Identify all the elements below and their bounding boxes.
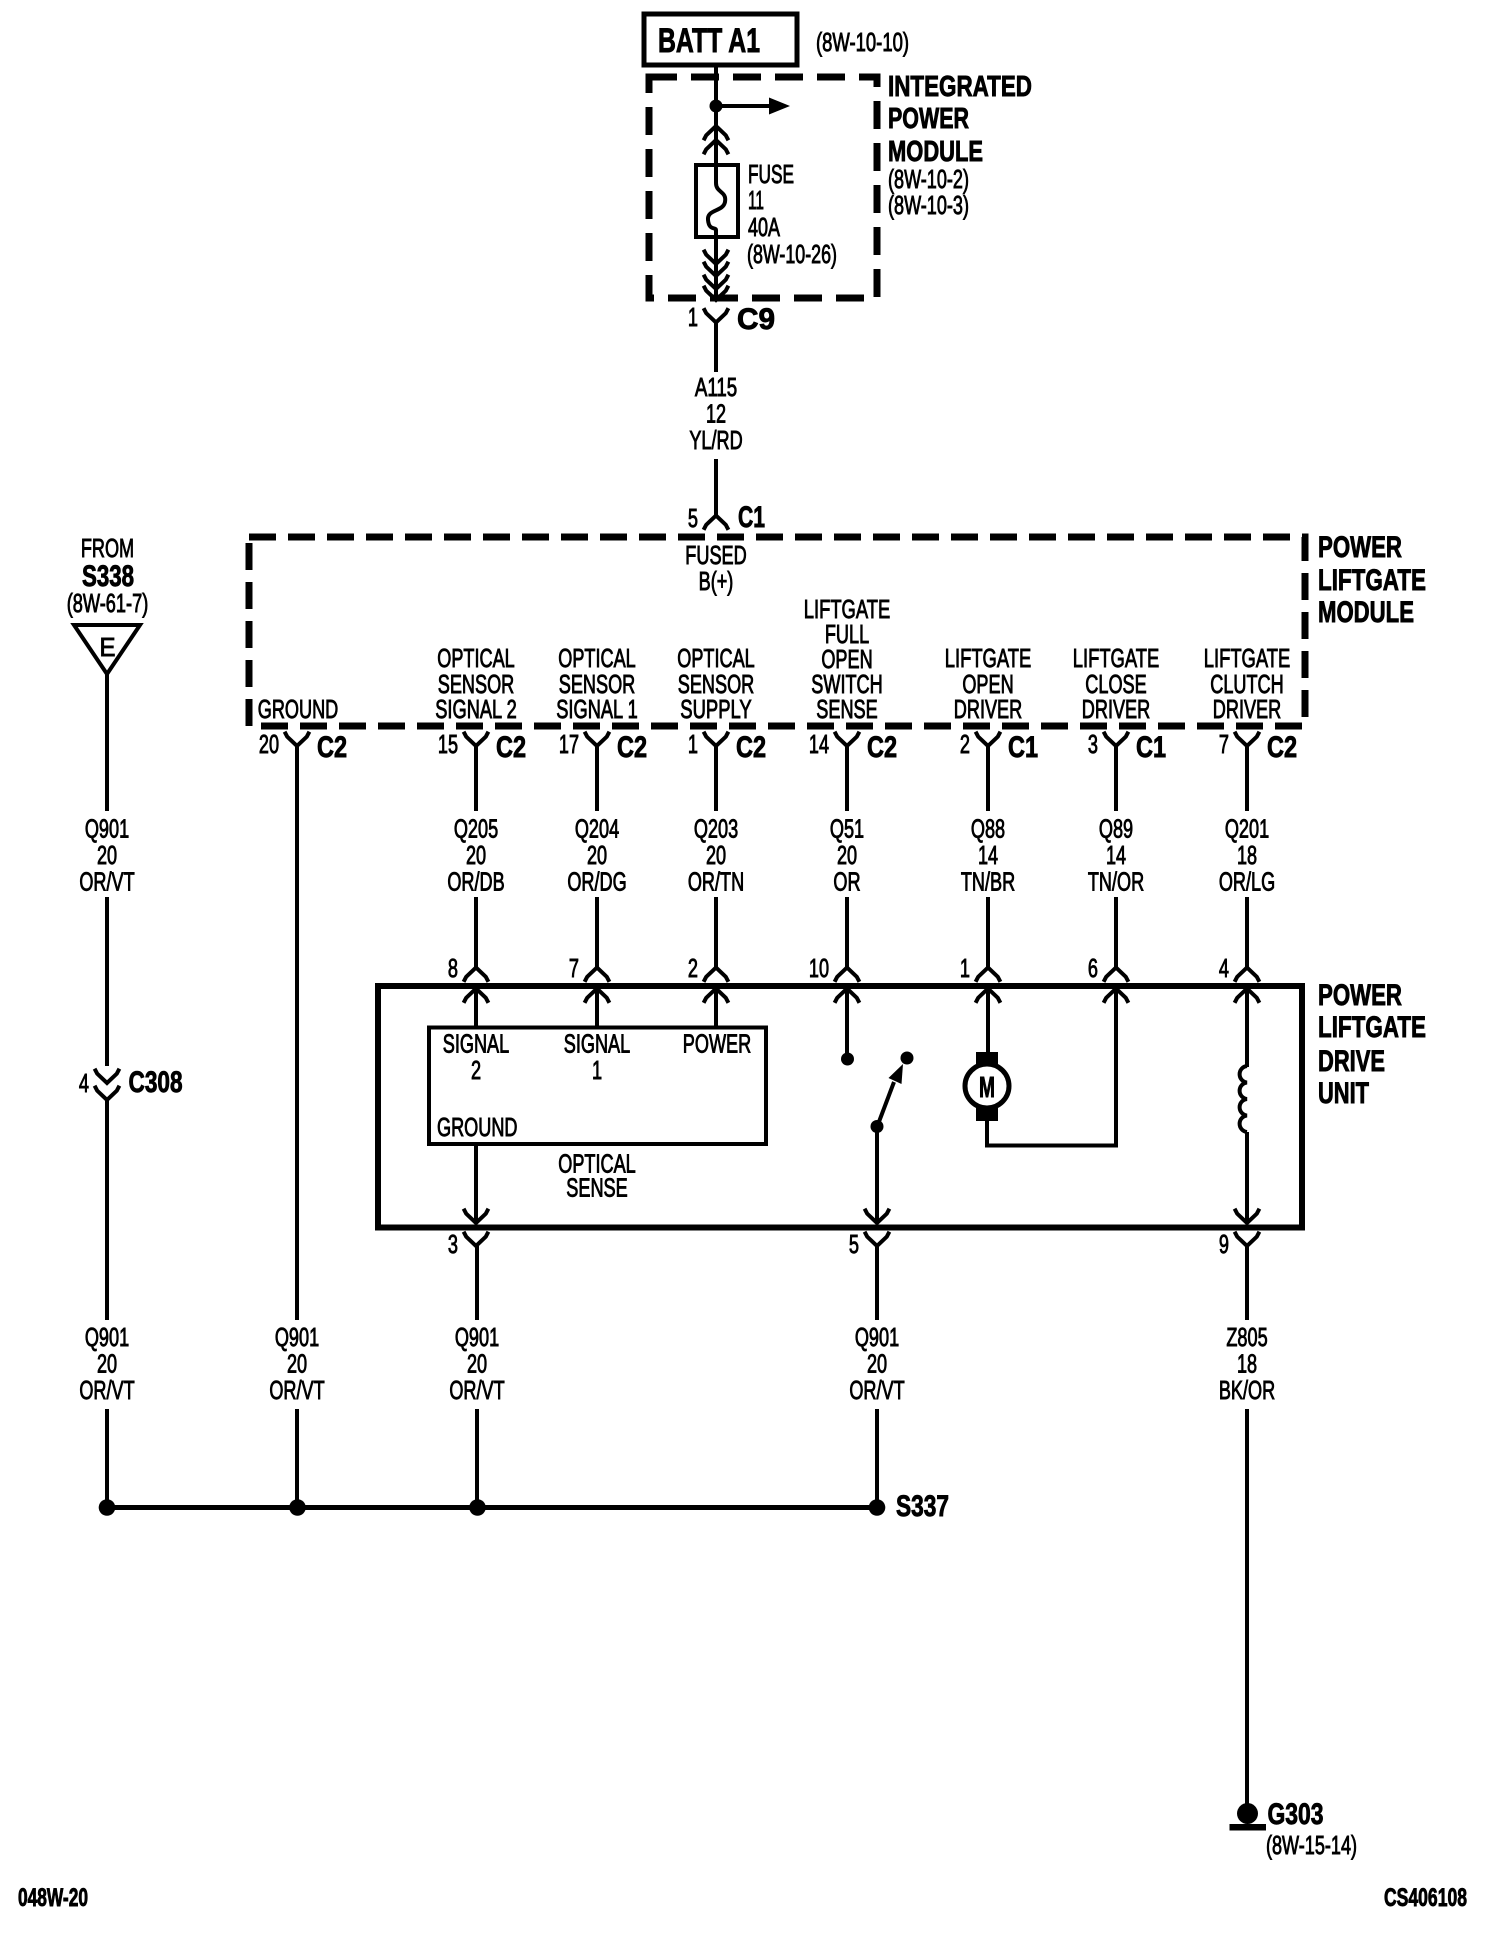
svg-text:14: 14	[1106, 842, 1126, 870]
drive unit bottom pin 9 terminal	[1219, 1231, 1260, 1259]
svg-text:4: 4	[79, 1070, 89, 1098]
module pin function LIFTGATE CLOSE DRIVER	[1073, 645, 1160, 724]
svg-text:POWER: POWER	[888, 103, 969, 135]
svg-text:C308: C308	[129, 1066, 183, 1099]
svg-text:Q201: Q201	[1225, 816, 1269, 844]
motor M	[965, 1052, 1009, 1121]
wire to splice lower segment x=877	[875, 1409, 879, 1508]
svg-text:2: 2	[688, 955, 698, 983]
optical sense block box	[429, 1028, 766, 1145]
wire Q89 lower segment	[1114, 897, 1118, 968]
svg-text:Q901: Q901	[855, 1324, 899, 1352]
svg-text:OR: OR	[833, 869, 860, 897]
wire Q51 upper segment	[845, 746, 849, 811]
wire Z805 lower segment	[1245, 1409, 1249, 1806]
wire Q201 lower segment	[1245, 897, 1249, 968]
svg-text:SIGNAL 1: SIGNAL 1	[556, 696, 638, 724]
svg-text:DRIVER: DRIVER	[1213, 696, 1281, 724]
svg-text:6: 6	[1088, 955, 1098, 983]
wire to splice lower segment x=477	[475, 1409, 479, 1508]
svg-text:SIGNAL 2: SIGNAL 2	[435, 696, 517, 724]
svg-text:MODULE: MODULE	[1318, 596, 1414, 629]
svg-text:20: 20	[466, 842, 486, 870]
splice node 1	[99, 1499, 116, 1516]
double chevron down pair below fuse	[704, 250, 729, 300]
svg-text:M: M	[979, 1072, 995, 1104]
svg-text:CS406108: CS406108	[1384, 1884, 1467, 1912]
wire label Q204 20 OR/DG	[567, 816, 626, 897]
svg-text:Q204: Q204	[575, 816, 619, 844]
power liftgate module dashed box	[249, 537, 1305, 726]
svg-text:S338: S338	[82, 560, 134, 593]
svg-text:7: 7	[569, 955, 579, 983]
svg-text:OR/DG: OR/DG	[567, 869, 626, 897]
wire fuse to IPM edge	[714, 237, 718, 298]
wire from BATT A1 into IPM	[714, 65, 718, 100]
svg-text:SIGNAL: SIGNAL	[443, 1031, 509, 1059]
ground G303 symbol	[1230, 1803, 1267, 1831]
wire Q201 upper segment	[1245, 746, 1249, 811]
drive unit pin 2 terminal	[688, 955, 729, 1003]
wire junction to fuse	[714, 106, 718, 168]
svg-text:SENSE: SENSE	[816, 696, 877, 724]
drive unit pin 10 terminal	[809, 955, 860, 1003]
svg-text:A115: A115	[695, 374, 737, 402]
drive unit pin 4 terminal	[1219, 955, 1260, 1003]
svg-text:3: 3	[448, 1231, 458, 1259]
svg-text:C2: C2	[317, 731, 347, 764]
wire label Q205 20 OR/DB	[447, 816, 504, 897]
svg-text:OR/TN: OR/TN	[688, 869, 744, 897]
svg-text:18: 18	[1237, 842, 1257, 870]
svg-text:Z805: Z805	[1226, 1324, 1267, 1352]
wire label Z805 18 BK/OR	[1219, 1324, 1275, 1405]
svg-text:3: 3	[1088, 731, 1098, 759]
wire Z805 upper segment	[1245, 1246, 1249, 1320]
svg-text:4: 4	[1219, 955, 1229, 983]
svg-text:1: 1	[688, 731, 698, 759]
wire label Q901 20 OR/VT at x=297	[269, 1324, 324, 1405]
svg-text:20: 20	[259, 731, 279, 759]
svg-text:(8W-10-3): (8W-10-3)	[888, 192, 969, 220]
module connector pin 7 C2	[1219, 731, 1297, 764]
from S338 label	[67, 535, 149, 618]
off-page triangle E	[74, 625, 140, 674]
svg-text:C1: C1	[1136, 731, 1166, 764]
optical block label SIGNAL 2	[443, 1031, 509, 1086]
svg-text:Q901: Q901	[85, 1324, 129, 1352]
wire pin 4 to clutch coil	[1245, 989, 1249, 1068]
svg-text:048W-20: 048W-20	[18, 1884, 88, 1912]
wire motor to pin 6	[985, 989, 1116, 1148]
svg-text:OR/VT: OR/VT	[269, 1377, 324, 1405]
svg-text:20: 20	[97, 1351, 117, 1379]
svg-text:YL/RD: YL/RD	[689, 427, 742, 455]
splice node 4	[869, 1499, 886, 1516]
wire label Q901 20 OR/VT at x=107	[79, 1324, 134, 1405]
svg-text:OR/DB: OR/DB	[447, 869, 504, 897]
svg-text:FUSED: FUSED	[685, 542, 746, 570]
module connector pin 1 C2	[688, 731, 766, 764]
svg-text:5: 5	[688, 505, 698, 533]
module connector pin 20 C2	[259, 731, 347, 764]
svg-text:UNIT: UNIT	[1318, 1077, 1369, 1110]
svg-text:MODULE: MODULE	[888, 136, 983, 168]
wire label A115 12 YL/RD	[689, 374, 742, 455]
svg-text:5: 5	[849, 1231, 859, 1259]
svg-text:Q901: Q901	[455, 1324, 499, 1352]
module pin function OPTICAL SENSOR SIGNAL 1	[556, 645, 638, 724]
power liftgate module label	[1318, 531, 1426, 629]
clutch coil inductor	[1240, 1066, 1247, 1132]
svg-text:(8W-15-14): (8W-15-14)	[1266, 1832, 1357, 1860]
wire pin 10 to switch contact	[845, 989, 849, 1054]
wire switch common to pin 5	[875, 1127, 879, 1223]
double chevron up on feed wire	[704, 126, 729, 154]
arrow into drive unit bottom edge pin 9	[1235, 1209, 1260, 1223]
battery feed box BATT A1	[644, 14, 797, 65]
wire label Q203 20 OR/TN	[688, 816, 744, 897]
svg-text:E: E	[100, 632, 116, 662]
svg-text:SENSE: SENSE	[566, 1175, 627, 1203]
wire label Q201 18 OR/LG	[1219, 816, 1275, 897]
svg-text:SIGNAL: SIGNAL	[564, 1031, 630, 1059]
optical sense caption	[558, 1151, 636, 1203]
svg-text:FROM: FROM	[81, 535, 134, 563]
drive unit bottom pin 3 terminal	[448, 1231, 489, 1259]
svg-text:20: 20	[97, 842, 117, 870]
svg-text:2: 2	[471, 1057, 481, 1085]
wire Q203 lower segment	[714, 897, 718, 968]
splice name S337	[896, 1490, 949, 1523]
connector C9 terminal	[704, 308, 729, 322]
svg-text:(8W-10-10): (8W-10-10)	[816, 29, 909, 57]
wire Q204 upper segment	[595, 746, 599, 811]
svg-text:1: 1	[960, 955, 970, 983]
pin 5 label at C1	[688, 505, 698, 533]
ground name G303	[1268, 1798, 1324, 1831]
svg-text:Q51: Q51	[830, 816, 864, 844]
connector C308 name	[129, 1066, 183, 1099]
wire Q205 lower segment	[474, 897, 478, 968]
connector C9 name	[737, 303, 775, 336]
switch common node	[871, 1120, 884, 1133]
svg-text:BATT A1: BATT A1	[658, 22, 760, 60]
svg-text:OR/VT: OR/VT	[449, 1377, 504, 1405]
svg-text:FUSE: FUSE	[748, 161, 794, 189]
svg-text:SWITCH: SWITCH	[811, 671, 882, 699]
integrated power module label	[888, 71, 1032, 220]
footer drawing id CS406108	[1384, 1884, 1467, 1912]
ground reference (8W-15-14)	[1266, 1832, 1357, 1860]
svg-text:2: 2	[960, 731, 970, 759]
svg-text:G303: G303	[1268, 1798, 1324, 1831]
pin 1 label at C9	[688, 304, 698, 332]
wire pin 8 into optical block	[474, 989, 478, 1028]
wire Q203 upper segment	[714, 746, 718, 811]
svg-text:Q203: Q203	[694, 816, 738, 844]
power liftgate drive unit label	[1318, 979, 1426, 1110]
svg-text:C2: C2	[736, 731, 766, 764]
svg-text:GROUND: GROUND	[437, 1114, 518, 1142]
wire Q205 upper segment	[474, 746, 478, 811]
wire pin 7 into optical block	[595, 989, 599, 1028]
svg-text:20: 20	[467, 1351, 487, 1379]
svg-text:C2: C2	[617, 731, 647, 764]
optical block label POWER	[683, 1031, 751, 1059]
module connector pin 15 C2	[438, 731, 526, 764]
wire clutch coil to pin 9	[1245, 1132, 1249, 1223]
svg-text:OPTICAL: OPTICAL	[437, 645, 515, 673]
wire A115 lower segment	[714, 459, 718, 516]
svg-text:GROUND: GROUND	[258, 696, 339, 724]
wire label Q901 20 OR/VT left upper	[79, 816, 134, 897]
svg-text:12: 12	[706, 401, 726, 429]
svg-text:BK/OR: BK/OR	[1219, 1377, 1275, 1405]
svg-text:C2: C2	[496, 731, 526, 764]
svg-text:LIFTGATE: LIFTGATE	[1318, 564, 1426, 597]
module connector pin 14 C2	[809, 731, 897, 764]
arrow tap to other circuits	[716, 98, 790, 115]
svg-text:C1: C1	[1008, 731, 1038, 764]
svg-text:LIFTGATE: LIFTGATE	[1204, 645, 1291, 673]
svg-text:20: 20	[287, 1351, 307, 1379]
wire to splice upper segment x=477	[475, 1246, 479, 1320]
connector C1 terminal	[704, 516, 729, 530]
module pin function GROUND	[258, 696, 339, 724]
connector C1 name	[738, 501, 765, 534]
wire Q51 lower segment	[845, 897, 849, 968]
power liftgate drive unit box	[378, 986, 1302, 1228]
svg-text:18: 18	[1237, 1351, 1257, 1379]
svg-text:OR/VT: OR/VT	[79, 869, 134, 897]
svg-text:20: 20	[837, 842, 857, 870]
switch contact node right	[901, 1052, 914, 1065]
wire pin 2 into optical block	[714, 989, 718, 1028]
svg-text:7: 7	[1219, 731, 1229, 759]
wire Q89 upper segment	[1114, 746, 1118, 811]
svg-text:DRIVE: DRIVE	[1318, 1045, 1385, 1078]
svg-text:FULL: FULL	[825, 621, 869, 649]
arrow into drive unit bottom edge pin 3	[464, 1209, 489, 1223]
svg-text:1: 1	[592, 1057, 602, 1085]
svg-text:10: 10	[809, 955, 829, 983]
wire label Q88 14 TN/BR	[961, 816, 1015, 897]
drive unit pin 1 terminal	[960, 955, 1001, 1003]
wire to splice lower segment x=107	[105, 1409, 109, 1508]
module pin function FUSED B(+)	[685, 542, 746, 596]
drive unit pin 8 terminal	[448, 955, 489, 1003]
svg-text:11: 11	[748, 187, 764, 215]
wire to splice upper segment x=877	[875, 1246, 879, 1320]
svg-text:SENSOR: SENSOR	[559, 671, 636, 699]
svg-text:15: 15	[438, 731, 458, 759]
svg-text:(8W-61-7): (8W-61-7)	[67, 590, 149, 618]
svg-text:SUPPLY: SUPPLY	[680, 696, 751, 724]
integrated power module dashed box	[649, 77, 877, 298]
fuse label	[747, 161, 837, 269]
svg-text:OR/LG: OR/LG	[1219, 869, 1275, 897]
wire Q901 to C308	[105, 897, 109, 1066]
node junction on battery feed	[710, 100, 723, 113]
module pin function LIFTGATE FULL OPEN SWITCH SENSE	[804, 596, 891, 724]
arrow into drive unit bottom edge pin 5	[865, 1209, 890, 1223]
switch contact node left	[841, 1053, 854, 1066]
ground wire from module pin 20	[295, 746, 299, 1320]
svg-text:8: 8	[448, 955, 458, 983]
svg-text:C2: C2	[867, 731, 897, 764]
svg-text:LIFTGATE: LIFTGATE	[1073, 645, 1160, 673]
splice node 3	[469, 1499, 486, 1516]
svg-text:Q89: Q89	[1099, 816, 1133, 844]
ground wire from optical block	[474, 1144, 478, 1223]
svg-text:LIFTGATE: LIFTGATE	[1318, 1011, 1426, 1044]
svg-text:OR/VT: OR/VT	[849, 1377, 904, 1405]
wire Q88 upper segment	[986, 746, 990, 811]
svg-text:LIFTGATE: LIFTGATE	[804, 596, 891, 624]
svg-text:Q205: Q205	[454, 816, 498, 844]
module connector pin 17 C2	[559, 731, 647, 764]
footer sheet number 048W-20	[18, 1884, 88, 1912]
splice node 2	[289, 1499, 306, 1516]
svg-text:OPTICAL: OPTICAL	[677, 645, 755, 673]
optical block label SIGNAL 1	[564, 1031, 630, 1086]
optical block label GROUND	[437, 1114, 518, 1142]
svg-text:OPEN: OPEN	[821, 646, 872, 674]
module pin function OPTICAL SENSOR SIGNAL 2	[435, 645, 517, 724]
svg-text:14: 14	[978, 842, 998, 870]
svg-text:SENSOR: SENSOR	[678, 671, 755, 699]
switch blade with arrow	[877, 1064, 903, 1127]
wire label Q89 14 TN/OR	[1088, 816, 1144, 897]
fuse 11 40A symbol	[696, 165, 738, 237]
svg-text:20: 20	[706, 842, 726, 870]
svg-text:CLOSE: CLOSE	[1085, 671, 1146, 699]
svg-text:S337: S337	[896, 1490, 949, 1523]
wire pin 1 to motor	[986, 989, 990, 1055]
wire label Q901 20 OR/VT at x=877	[849, 1324, 904, 1405]
wire Q901 from S338 upper segment	[105, 674, 109, 811]
svg-text:LIFTGATE: LIFTGATE	[945, 645, 1032, 673]
reference (8W-10-10)	[816, 29, 909, 57]
wire label Q51 20 OR	[830, 816, 864, 897]
module connector pin 3 C1	[1088, 731, 1166, 764]
svg-text:Q901: Q901	[275, 1324, 319, 1352]
wire Q204 lower segment	[595, 897, 599, 968]
svg-text:14: 14	[809, 731, 829, 759]
svg-text:CLUTCH: CLUTCH	[1210, 671, 1283, 699]
wire C308 to splice upper	[105, 1100, 109, 1320]
svg-text:B(+): B(+)	[699, 568, 734, 596]
wire Q88 lower segment	[986, 897, 990, 968]
svg-text:1: 1	[688, 304, 698, 332]
svg-text:TN/OR: TN/OR	[1088, 869, 1144, 897]
svg-text:(8W-10-2): (8W-10-2)	[888, 166, 969, 194]
svg-text:POWER: POWER	[1318, 979, 1402, 1012]
svg-text:Q901: Q901	[85, 816, 129, 844]
drive unit bottom pin 5 terminal	[849, 1231, 890, 1259]
svg-text:17: 17	[559, 731, 579, 759]
wire label Q901 20 OR/VT at x=477	[449, 1324, 504, 1405]
svg-text:9: 9	[1219, 1231, 1229, 1259]
svg-text:TN/BR: TN/BR	[961, 869, 1015, 897]
svg-text:OR/VT: OR/VT	[79, 1377, 134, 1405]
svg-text:20: 20	[587, 842, 607, 870]
svg-text:OPEN: OPEN	[962, 671, 1013, 699]
drive unit pin 6 terminal	[1088, 955, 1129, 1003]
svg-text:40A: 40A	[748, 214, 780, 242]
module pin function LIFTGATE OPEN DRIVER	[945, 645, 1032, 724]
wire A115 upper segment	[714, 323, 718, 373]
svg-text:DRIVER: DRIVER	[1082, 696, 1150, 724]
svg-text:DRIVER: DRIVER	[954, 696, 1022, 724]
module pin function LIFTGATE CLUTCH DRIVER	[1204, 645, 1291, 724]
module connector pin 2 C1	[960, 731, 1038, 764]
wire to splice lower segment x=297	[295, 1409, 299, 1508]
splice bus S337	[107, 1505, 877, 1510]
svg-text:POWER: POWER	[683, 1031, 751, 1059]
svg-text:POWER: POWER	[1318, 531, 1402, 564]
svg-text:C9: C9	[737, 303, 775, 336]
svg-text:SENSOR: SENSOR	[438, 671, 515, 699]
svg-text:C1: C1	[738, 501, 765, 534]
module pin function OPTICAL SENSOR SUPPLY	[677, 645, 755, 724]
svg-text:C2: C2	[1267, 731, 1297, 764]
svg-text:OPTICAL: OPTICAL	[558, 645, 636, 673]
svg-text:Q88: Q88	[971, 816, 1005, 844]
svg-text:20: 20	[867, 1351, 887, 1379]
svg-text:(8W-10-26): (8W-10-26)	[747, 241, 837, 269]
pin 4 label at C308	[79, 1070, 89, 1098]
connector C308 double chevron	[95, 1069, 120, 1100]
drive unit pin 7 terminal	[569, 955, 610, 1003]
svg-text:INTEGRATED: INTEGRATED	[888, 71, 1032, 103]
